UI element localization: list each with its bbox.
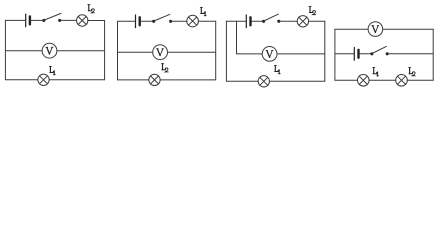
voltmeter V (C) — [262, 47, 277, 62]
wire: B battery to switch — [141, 20, 154, 22]
voltmeter V (A) — [42, 43, 57, 58]
wire: C left edge — [225, 21, 227, 81]
lamp L1 (A) — [38, 74, 49, 85]
wire: C switch to lamp L2 — [279, 20, 297, 22]
wire: A bottom right — [49, 79, 104, 81]
wire: A left edge — [4, 20, 6, 79]
label L1 (C) — [274, 65, 280, 73]
label L2 (D) — [409, 68, 416, 76]
wire: C inner-left vertical (voltmeter tap) — [236, 21, 238, 54]
wire: D top right of voltmeter — [383, 28, 433, 30]
wire: C top-left to battery — [226, 20, 245, 22]
wire: A battery to switch — [31, 19, 44, 21]
switch S (B) (open) — [152, 14, 172, 23]
switch S (C) (open) — [262, 14, 280, 23]
wire: A top-left to battery — [5, 19, 25, 21]
wire: B top-left to battery — [118, 20, 136, 22]
wire: D right edge — [432, 29, 434, 80]
wire: D lamp L2 to right corner — [407, 79, 433, 81]
label L1 (A) — [49, 66, 55, 74]
wire: A middle right — [57, 50, 105, 52]
lamp L1 (B) — [187, 15, 199, 27]
wire: C bottom right — [269, 80, 324, 82]
wire: A bottom left — [5, 79, 38, 81]
wire: B middle left — [118, 51, 153, 53]
wire: D top left of voltmeter — [335, 28, 368, 30]
wire: D switch to right edge — [387, 53, 433, 55]
wire: C right edge — [324, 21, 326, 81]
wire: B left edge — [117, 21, 119, 80]
wire: D left edge — [334, 29, 336, 80]
lamp L2 (C) — [297, 16, 308, 27]
wire: B switch to lamp L1 — [171, 20, 187, 22]
label L2 (B) — [161, 64, 168, 72]
wire: D between lamps — [369, 79, 396, 81]
wire: B bottom left — [118, 79, 149, 81]
wire: C middle right — [277, 53, 325, 55]
wire: B right edge — [215, 21, 217, 80]
wire: A switch to lamp L2 — [60, 19, 77, 21]
battery GB (D) — [354, 47, 358, 60]
lamp L2 (A) — [77, 15, 88, 26]
wire: C middle left — [237, 53, 263, 55]
wire: B middle right — [168, 51, 216, 53]
wire: B bottom right — [160, 79, 216, 81]
lamp L1 (D) — [358, 75, 370, 87]
lamp L2 (B) — [149, 74, 160, 85]
wire: B lamp L1 to right corner — [198, 20, 215, 22]
lamp L2 (D) — [396, 75, 408, 87]
wire: C lamp L2 to right corner — [309, 20, 325, 22]
wire: C battery to switch — [252, 20, 264, 22]
battery GB (B) — [136, 15, 140, 28]
battery GB (C) — [246, 15, 250, 28]
wire: D middle to battery — [335, 53, 354, 55]
wire: A middle left — [5, 50, 42, 52]
label L1 (B) — [200, 7, 206, 15]
battery GB (A) — [26, 14, 30, 27]
wire: A right edge — [104, 20, 106, 79]
voltmeter V (D) — [368, 22, 383, 37]
label L2 (C) — [309, 6, 316, 14]
switch S (A) (open) — [42, 13, 61, 22]
lamp L1 (C) — [258, 76, 269, 87]
label L2 (A) — [88, 5, 95, 13]
wire: D bottom left — [335, 79, 358, 81]
wire: A lamp L2 to right corner — [88, 20, 105, 22]
wire: D battery to switch — [360, 53, 372, 55]
voltmeter V (B) — [153, 45, 168, 60]
label L1 (D) — [373, 68, 379, 76]
wire: C bottom left — [226, 80, 258, 82]
switch S (D) (open) — [370, 46, 388, 55]
